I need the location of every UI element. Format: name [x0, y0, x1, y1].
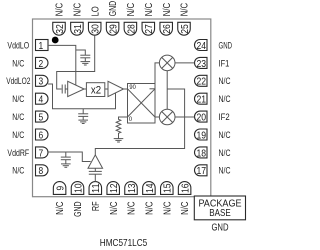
svg-text:BASE: BASE	[209, 208, 231, 219]
mixer M2 (IF2)	[159, 109, 175, 125]
capacitor C4 (RF input coupling)	[89, 168, 102, 181]
svg-text:GND: GND	[73, 201, 84, 217]
svg-text:0: 0	[129, 116, 133, 123]
pin 3 (VddLO2) left	[36, 75, 49, 86]
svg-text:N/C: N/C	[162, 3, 173, 17]
pin 14 (N/C) bottom	[143, 182, 156, 195]
wire hybrid 90 port to mixer M1	[155, 63, 159, 89]
svg-text:IF2: IF2	[219, 112, 230, 123]
svg-text:N/C: N/C	[219, 148, 231, 159]
svg-text:24: 24	[197, 40, 207, 52]
svg-text:RF: RF	[91, 201, 102, 211]
svg-text:GND: GND	[211, 223, 228, 234]
svg-text:11: 11	[90, 183, 102, 193]
pin 10 (GND) bottom	[71, 182, 84, 195]
pin 28 (N/C) top	[124, 22, 137, 35]
svg-text:26: 26	[161, 24, 173, 34]
svg-text:5: 5	[39, 112, 44, 124]
pin 1 indicator dot	[52, 37, 59, 44]
pin 26 (N/C) top	[160, 22, 173, 35]
amplifier A2 (LO amp 2)	[108, 81, 124, 96]
pin 15 (N/C) bottom	[161, 182, 174, 195]
svg-text:GND: GND	[219, 40, 233, 51]
pin 5 (N/C) left	[36, 111, 49, 122]
pin 20 (IF2) right	[195, 111, 208, 122]
svg-text:VddRF: VddRF	[7, 148, 29, 159]
svg-text:13: 13	[126, 183, 138, 193]
svg-text:90: 90	[129, 84, 136, 91]
pin 6 (N/C) left	[36, 129, 49, 140]
svg-text:10: 10	[72, 183, 84, 193]
pin 22 (N/C) right	[195, 75, 208, 86]
svg-text:GND: GND	[108, 1, 119, 17]
capacitor C3 (VddLO2 bypass)	[78, 109, 88, 120]
capacitor C5 (VddRF bypass)	[61, 152, 71, 164]
pin 27 (N/C) top	[142, 22, 155, 35]
svg-text:N/C: N/C	[145, 201, 156, 215]
pin 8 (N/C) left	[36, 165, 49, 176]
svg-text:2: 2	[39, 58, 44, 70]
pin 16 (N/C) bottom	[178, 182, 191, 195]
svg-text:14: 14	[144, 183, 156, 193]
svg-text:18: 18	[197, 147, 207, 159]
pin 9 (N/C) bottom	[53, 182, 66, 195]
svg-text:N/C: N/C	[219, 166, 231, 177]
svg-text:1: 1	[39, 40, 44, 52]
amplifier A1 (LO amp)	[68, 81, 84, 96]
wire hybrid 0 port to mixer M2	[155, 116, 159, 118]
svg-text:25: 25	[179, 24, 191, 34]
pin 31 (N/C) top	[71, 22, 84, 35]
svg-text:21: 21	[197, 94, 207, 106]
ground (hybrid termination)	[114, 139, 124, 142]
svg-text:N/C: N/C	[219, 130, 231, 141]
svg-text:N/C: N/C	[219, 94, 231, 105]
svg-text:N/C: N/C	[180, 3, 191, 17]
amplifier A3 (RF amp)	[88, 155, 103, 168]
pin 1 (VddLO) left	[36, 40, 49, 51]
svg-text:20: 20	[197, 112, 207, 124]
svg-text:N/C: N/C	[55, 201, 66, 215]
svg-text:28: 28	[125, 24, 137, 34]
ground (VddLO2 bypass)	[78, 120, 88, 123]
svg-text:7: 7	[39, 147, 44, 159]
pin 12 (N/C) bottom	[107, 182, 120, 195]
svg-text:4: 4	[39, 94, 44, 106]
quadrature hybrid 90/0	[128, 84, 156, 124]
svg-text:N/C: N/C	[126, 3, 137, 17]
svg-text:x2: x2	[91, 85, 101, 97]
pin 32 (N/C) top	[53, 22, 66, 35]
svg-text:N/C: N/C	[127, 201, 138, 215]
pin 30 (LO) top	[88, 22, 101, 35]
ground (VddLO bypass)	[81, 62, 91, 65]
svg-text:N/C: N/C	[12, 130, 24, 141]
pin 13 (N/C) bottom	[125, 182, 138, 195]
svg-text:15: 15	[162, 183, 174, 193]
svg-text:VddLO2: VddLO2	[6, 76, 30, 87]
wire A1 to x2	[84, 88, 86, 90]
svg-text:IF1: IF1	[219, 58, 230, 69]
svg-text:8: 8	[39, 165, 44, 177]
svg-text:32: 32	[54, 24, 66, 34]
svg-text:9: 9	[55, 186, 67, 191]
svg-text:N/C: N/C	[180, 201, 191, 215]
pin 29 (GND) top	[106, 22, 119, 35]
pin 11 (RF) bottom	[89, 182, 102, 195]
wire A2 to hybrid	[124, 88, 128, 90]
wire RF feed between mixers	[166, 71, 168, 110]
svg-text:19: 19	[197, 129, 207, 141]
pin 2 (N/C) left	[36, 57, 49, 68]
svg-text:N/C: N/C	[73, 3, 84, 17]
wire LO from pin 30 to input cap	[57, 35, 95, 89]
resistor R1 (hybrid termination)	[116, 117, 127, 139]
svg-text:N/C: N/C	[12, 112, 24, 123]
wire RF amp output to mixers	[95, 89, 184, 155]
svg-text:N/C: N/C	[12, 58, 24, 69]
svg-text:17: 17	[197, 165, 207, 177]
ground (VddRF bypass)	[61, 164, 71, 167]
svg-text:22: 22	[197, 76, 207, 88]
wire VddRF pin 7 to A3	[48, 152, 91, 162]
svg-text:N/C: N/C	[55, 3, 66, 17]
pin 25 (N/C) top	[178, 22, 191, 35]
pin 7 (VddRF) left	[36, 147, 49, 158]
svg-text:LO: LO	[90, 6, 101, 16]
pin 24 (GND) right	[195, 40, 207, 51]
wire x2 to A2	[105, 88, 108, 90]
svg-text:27: 27	[143, 24, 155, 34]
svg-text:30: 30	[90, 24, 102, 34]
svg-text:29: 29	[108, 24, 120, 34]
svg-text:VddLO: VddLO	[7, 40, 29, 51]
svg-text:12: 12	[108, 183, 120, 193]
svg-text:N/C: N/C	[162, 201, 173, 215]
wire mixer M1 to pin 23 IF1	[175, 62, 195, 64]
capacitor C1 (LO input coupling)	[62, 85, 67, 94]
svg-text:N/C: N/C	[12, 94, 24, 105]
mixer M1 (IF1)	[159, 55, 175, 71]
pin 17 (N/C) right	[195, 165, 208, 176]
wire VddLO pin 1 to A1	[48, 45, 76, 85]
wire VddLO branch to bypass cap	[76, 50, 86, 55]
frequency doubler x2	[86, 83, 104, 97]
svg-text:6: 6	[39, 129, 44, 141]
pin 23 (IF1) right	[195, 57, 208, 68]
pin 19 (N/C) right	[195, 129, 208, 140]
svg-text:N/C: N/C	[219, 76, 231, 87]
capacitor C2 (VddLO bypass)	[80, 55, 90, 61]
pin 4 (N/C) left	[36, 93, 49, 104]
svg-text:N/C: N/C	[144, 3, 155, 17]
svg-text:23: 23	[197, 58, 207, 70]
svg-text:16: 16	[180, 183, 192, 193]
package base paddle box	[194, 196, 245, 220]
pin 21 (N/C) right	[195, 93, 208, 104]
svg-text:31: 31	[72, 24, 84, 34]
wire VddLO2 pin 3 rail	[48, 84, 116, 109]
wire mixer M2 to pin 20 IF2	[175, 116, 195, 118]
svg-text:HMC571LC5: HMC571LC5	[100, 238, 148, 249]
pin 18 (N/C) right	[195, 147, 208, 158]
svg-text:N/C: N/C	[109, 201, 120, 215]
svg-text:N/C: N/C	[12, 166, 24, 177]
package outline U1	[33, 19, 211, 197]
svg-text:3: 3	[39, 76, 44, 88]
